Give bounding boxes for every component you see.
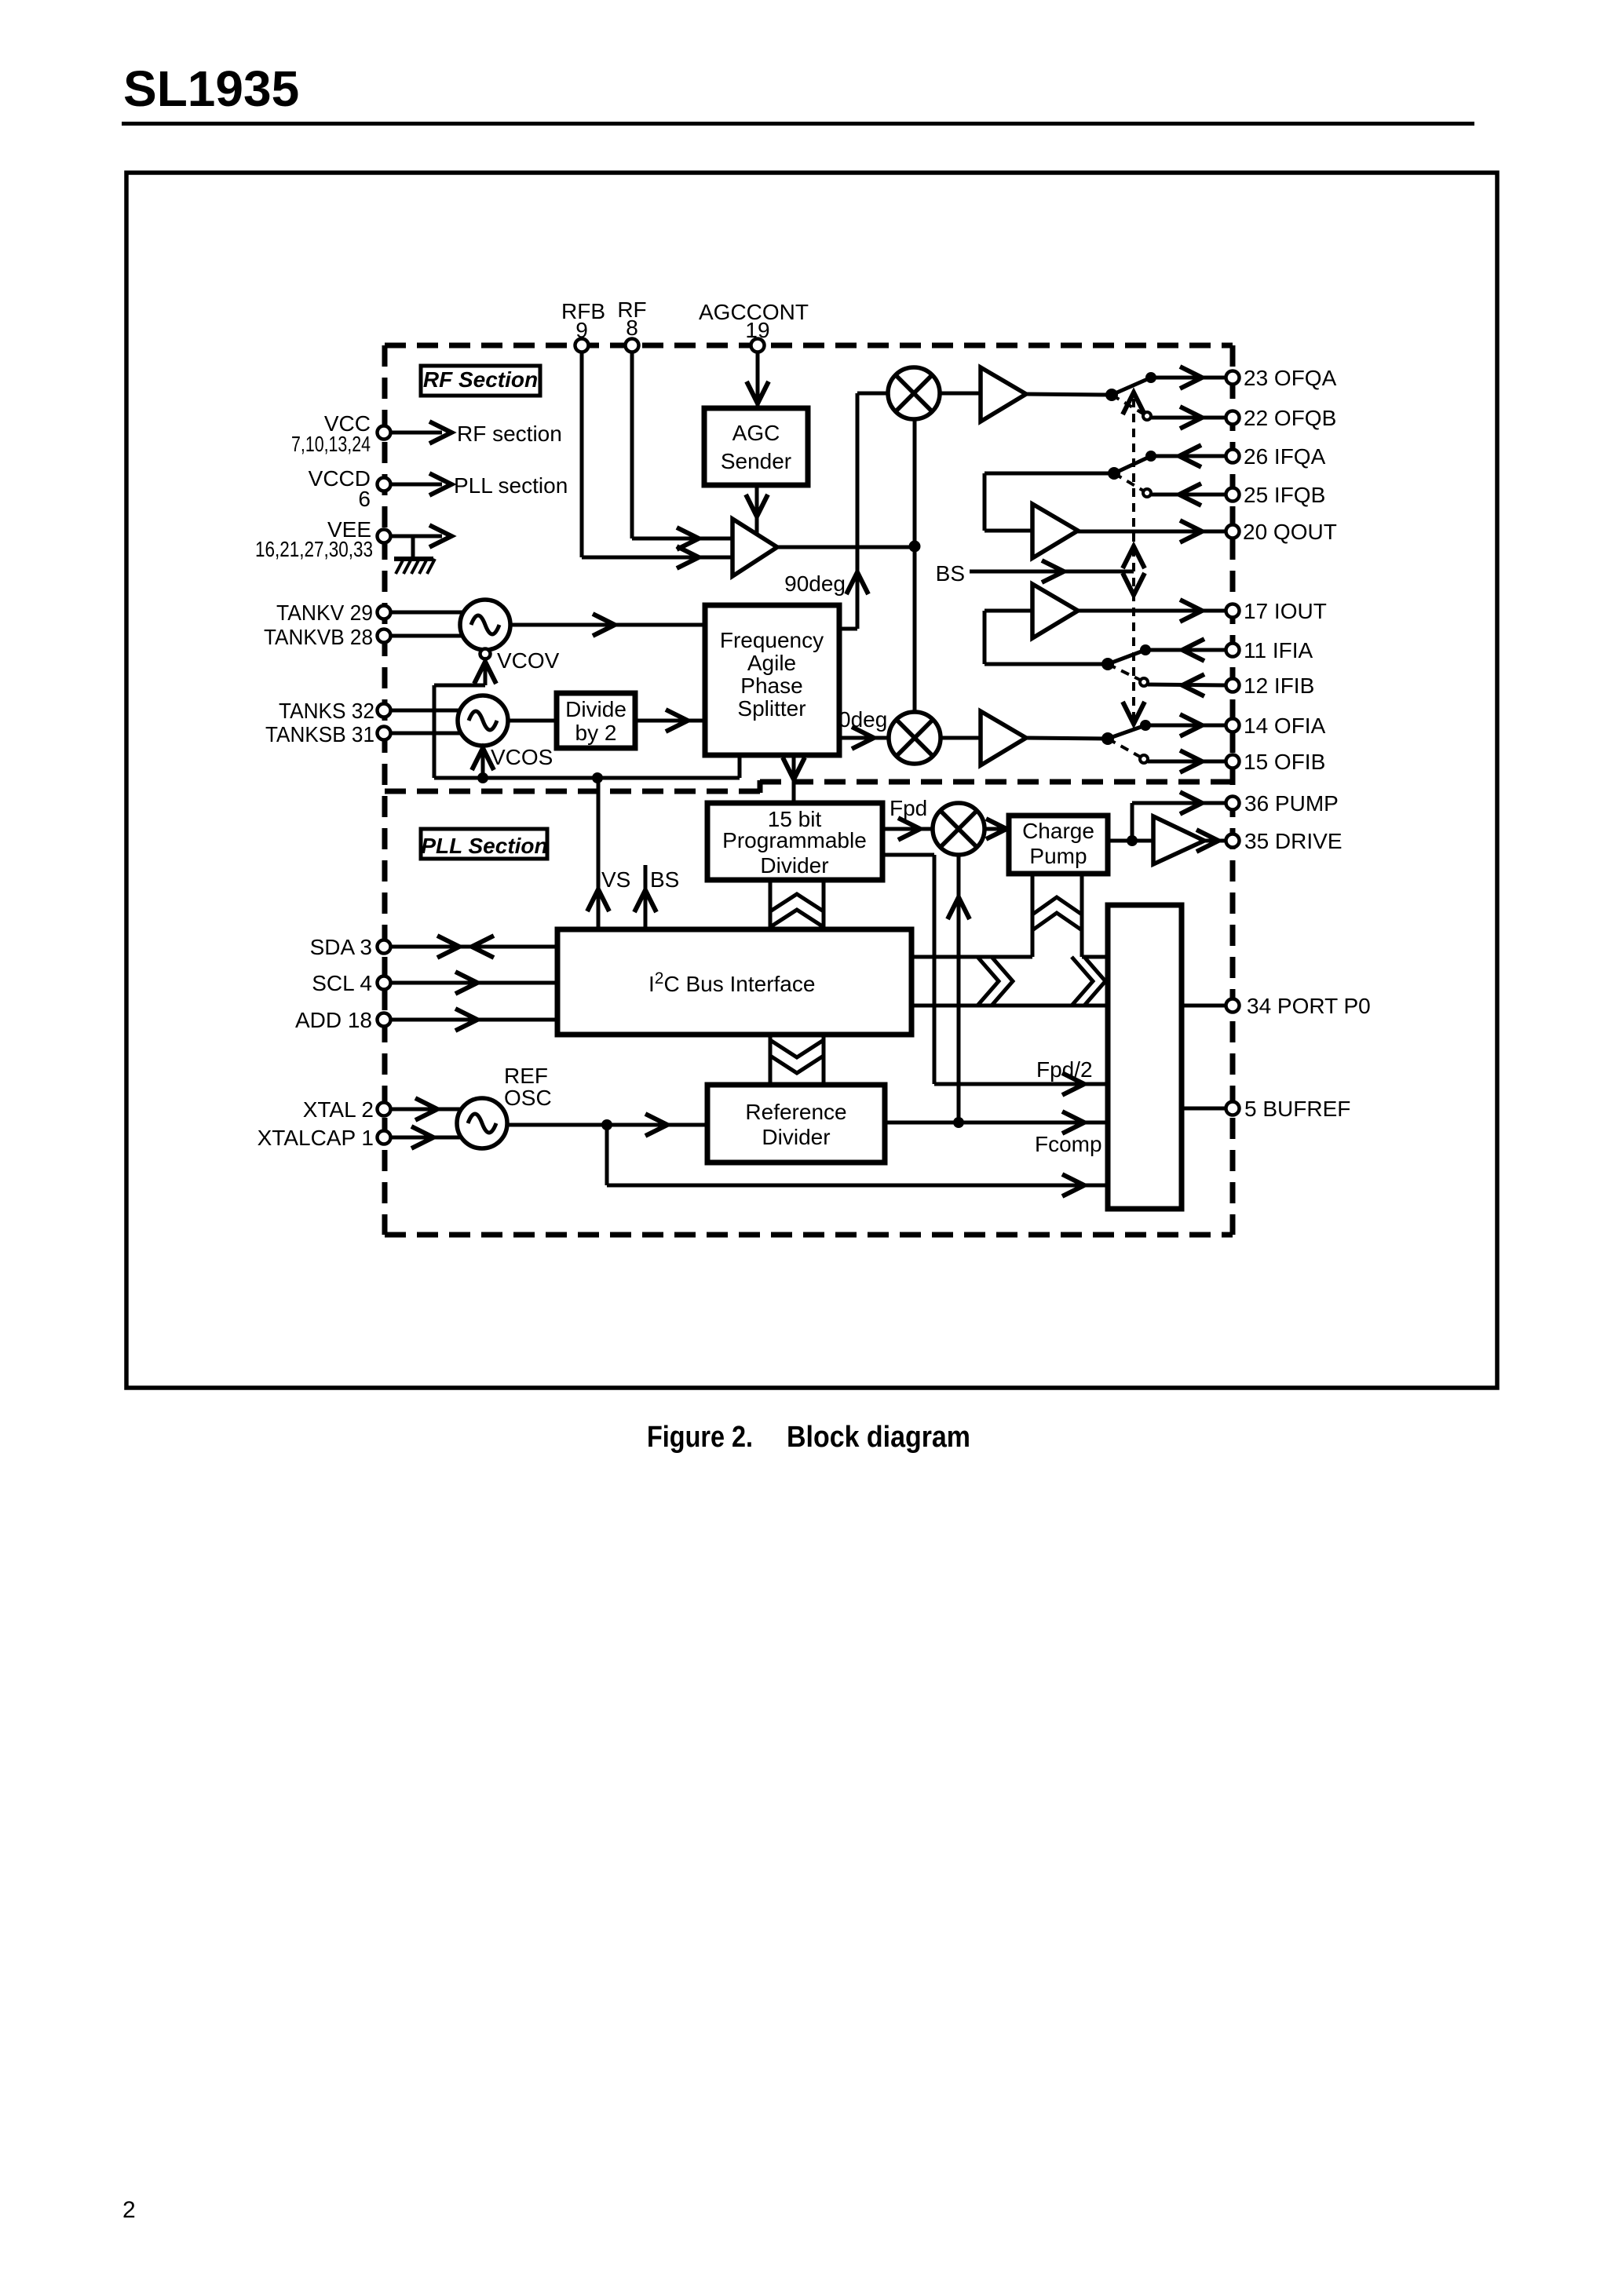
svg-text:0deg: 0deg: [838, 707, 887, 732]
svg-text:Frequency: Frequency: [720, 628, 824, 652]
node junction pump: [1127, 835, 1138, 846]
svg-text:Phase: Phase: [740, 673, 802, 698]
wire PORT P0: [1182, 1004, 1226, 1008]
pin 11 IFIA: [1226, 638, 1313, 663]
wire VCC arrow: [390, 422, 451, 444]
svg-text:Figure 2.: Figure 2.: [647, 1421, 753, 1454]
svg-text:ADD 18: ADD 18: [295, 1008, 372, 1032]
svg-text:12 IFIB: 12 IFIB: [1244, 673, 1314, 698]
svg-text:TANKVB 28: TANKVB 28: [264, 625, 373, 649]
svg-text:22 OFQB: 22 OFQB: [1244, 406, 1336, 430]
wire amp I to switch: [1026, 738, 1108, 739]
pin circle XTALCAP: [378, 1131, 391, 1144]
wire to pin 15 OFIB: [1148, 750, 1226, 772]
pin circle TANKVB: [378, 630, 391, 643]
svg-text:36 PUMP: 36 PUMP: [1244, 791, 1339, 816]
pin 35 DRIVE: [1226, 829, 1343, 853]
arrowhead RFB into amp: [677, 546, 699, 568]
svg-text:11 IFIA: 11 IFIA: [1244, 638, 1313, 663]
pin 22 OFQB: [1226, 406, 1337, 430]
wire QOUT output: [1078, 520, 1226, 542]
oscillator REF OSC: [457, 1098, 507, 1148]
pin 26 IFQA: [1226, 444, 1326, 469]
svg-text:VCOS: VCOS: [491, 745, 553, 769]
svg-text:14 OFIA: 14 OFIA: [1244, 714, 1326, 738]
bus I2C to register: [911, 957, 1108, 1006]
amp IOUT: [1032, 584, 1078, 638]
wire from pin 26 IFQA: [1151, 445, 1226, 467]
bus charge pump column: [1032, 874, 1082, 957]
switch OFI: [1101, 720, 1151, 763]
pin 14 OFIA: [1226, 714, 1326, 738]
pin 36 PUMP: [1226, 791, 1339, 816]
pin circle VEE: [378, 530, 391, 543]
block Frequency Agile Phase Splitter: [705, 605, 839, 755]
wire from pin 25 IFQB: [1151, 484, 1226, 506]
pin AGCCONT 19 wire: [756, 352, 760, 408]
svg-text:15 OFIB: 15 OFIB: [1244, 750, 1325, 774]
svg-text:XTALCAP 1: XTALCAP 1: [258, 1126, 374, 1150]
svg-text:Divide: Divide: [565, 697, 627, 721]
svg-text:SCL 4: SCL 4: [312, 971, 372, 995]
wire BS control: [970, 560, 1134, 582]
switch IFI: [1101, 644, 1151, 686]
pin 17 IOUT: [1226, 599, 1327, 623]
pin 12 IFIB: [1226, 673, 1315, 698]
PLL Section label: [421, 829, 548, 859]
wire TANKV: [390, 611, 471, 615]
svg-text:VS: VS: [601, 867, 630, 892]
pin circle VCCD: [378, 478, 391, 491]
wire switch control dashed: [1123, 392, 1145, 724]
wire SCL: [390, 972, 557, 994]
svg-text:OSC: OSC: [504, 1086, 552, 1110]
svg-text:5 BUFREF: 5 BUFREF: [1244, 1097, 1350, 1121]
svg-text:Pump: Pump: [1029, 844, 1087, 868]
pin VCCD label: [309, 466, 371, 511]
svg-text:BS: BS: [650, 867, 679, 892]
svg-text:8: 8: [626, 316, 638, 340]
block 15 bit Programmable Divider: [707, 803, 882, 880]
wire drive output: [1196, 830, 1226, 852]
node junction amp output: [909, 541, 921, 553]
pin circle TANKS: [378, 704, 391, 717]
switch OFQ: [1105, 372, 1156, 420]
block I2C Bus Interface: [557, 929, 911, 1035]
svg-text:TANKSB 31: TANKSB 31: [265, 722, 374, 746]
pin VEE label: [255, 517, 373, 561]
wire mixer Q to amp: [940, 392, 981, 396]
wire AGC Sender to RF amp: [755, 485, 759, 534]
node junction fcomp: [953, 1117, 964, 1128]
wire 90deg path: [839, 393, 888, 629]
wire VCCD arrow: [390, 473, 451, 495]
svg-text:SL1935: SL1935: [123, 60, 299, 117]
svg-text:REF: REF: [504, 1064, 548, 1088]
svg-text:Charge: Charge: [1022, 819, 1094, 843]
pin 23 OFQA: [1226, 366, 1337, 390]
amp I: [981, 711, 1026, 765]
wire BS stub: [634, 865, 656, 929]
amp DRIVE: [1153, 816, 1204, 864]
node REF OSC label: [504, 1064, 552, 1110]
svg-text:TANKV 29: TANKV 29: [276, 600, 373, 625]
section dashed right border: [1230, 345, 1236, 1235]
wire VS: [587, 778, 609, 929]
figure frame: [126, 173, 1497, 1388]
wire VCOV select arrow: [474, 662, 496, 685]
wire XTAL: [390, 1098, 465, 1120]
wire VCO select rail: [434, 685, 740, 778]
svg-text:Reference: Reference: [745, 1100, 846, 1124]
svg-text:25 IFQB: 25 IFQB: [1244, 483, 1325, 507]
wire VCOS select arrow: [472, 747, 494, 778]
section dashed left border: [382, 345, 388, 1235]
svg-text:Fcomp: Fcomp: [1035, 1132, 1102, 1156]
pin 5 BUFREF: [1226, 1097, 1351, 1121]
svg-text:RF section: RF section: [457, 422, 562, 446]
pin 20 QOUT: [1226, 520, 1337, 544]
wire phase detector to charge pump: [985, 819, 1009, 839]
wire 0deg path: [839, 727, 889, 749]
switch IFQ: [1108, 451, 1156, 497]
wire Divide by 2 to splitter: [635, 710, 705, 732]
svg-text:BS: BS: [936, 561, 965, 586]
wire from pin 12 IFIB: [1148, 674, 1226, 696]
pin RF 8 wire: [632, 352, 732, 538]
wire from pin 11 IFIA: [1145, 639, 1226, 661]
wire VEE arrow: [390, 525, 451, 557]
node junction refosc: [601, 1119, 612, 1130]
pin VCC label: [291, 411, 371, 456]
svg-text:PLL section: PLL section: [454, 473, 568, 498]
wire mixer I to amp: [941, 736, 981, 740]
pin circle RF: [626, 339, 639, 352]
pin RF 8 label: [617, 297, 646, 340]
svg-text:26 IFQA: 26 IFQA: [1244, 444, 1326, 469]
wire to pin 14 OFIA: [1145, 714, 1226, 736]
arrowhead AGCCONT into AGC Sender: [747, 381, 769, 403]
pin circle SCL: [378, 976, 391, 990]
wire reference to phase detector: [948, 855, 970, 1122]
pin 25 IFQB: [1226, 483, 1326, 507]
block Reference Divider: [707, 1085, 885, 1163]
wire ADD: [390, 1009, 557, 1031]
arrowhead RF into amp: [677, 527, 699, 549]
svg-text:Block diagram: Block diagram: [787, 1421, 970, 1454]
arrowhead AGC to amp: [746, 495, 768, 517]
AGC Sender block: [704, 408, 808, 485]
block register: [1108, 905, 1182, 1209]
title rule: [122, 122, 1474, 126]
wire VCOS to Divide by 2: [508, 719, 557, 723]
mixer Q: [888, 367, 940, 419]
wire amp Q to switch: [1026, 394, 1112, 395]
svg-text:Sender: Sender: [721, 449, 791, 473]
svg-text:35 DRIVE: 35 DRIVE: [1244, 829, 1343, 853]
svg-text:16,21,27,30,33: 16,21,27,30,33: [255, 537, 373, 561]
RF/PLL dashed divider: [385, 780, 1233, 793]
svg-text:AGC: AGC: [732, 421, 780, 445]
svg-text:Splitter: Splitter: [737, 696, 806, 721]
pin circle TANKV: [378, 606, 391, 619]
wire TANKS: [390, 709, 467, 713]
wire SDA: [390, 936, 557, 958]
block Divide by 2: [557, 693, 635, 748]
wire XTALCAP: [390, 1126, 465, 1148]
mixer phase detector: [933, 803, 985, 855]
wire refosc to register bottom: [607, 1125, 1108, 1196]
mixer I: [889, 712, 941, 764]
svg-text:TANKS 32: TANKS 32: [279, 699, 374, 723]
RF Section label: [421, 366, 540, 396]
wire divider second output: [882, 855, 1108, 1095]
svg-text:90deg: 90deg: [784, 571, 846, 596]
svg-text:I2C Bus Interface: I2C Bus Interface: [648, 969, 815, 996]
pin circle SDA: [378, 940, 391, 954]
svg-text:XTAL 2: XTAL 2: [303, 1097, 374, 1122]
oscillator VCOV: [460, 600, 510, 650]
wire IFQ feedback to QOUT amp: [985, 473, 1114, 531]
svg-text:17 IOUT: 17 IOUT: [1244, 599, 1327, 623]
svg-text:SDA 3: SDA 3: [310, 935, 372, 959]
section dashed bottom border: [385, 1232, 1233, 1238]
svg-text:Fpd/2: Fpd/2: [1036, 1057, 1093, 1082]
wire to pin 22 OFQB: [1151, 407, 1226, 429]
svg-text:Programmable: Programmable: [722, 828, 867, 852]
wire IFI feedback to IOUT amp: [985, 611, 1108, 664]
bus divider to I2C: [770, 880, 824, 929]
svg-text:23 OFQA: 23 OFQA: [1244, 366, 1337, 390]
pin RFB 9 label: [561, 299, 605, 342]
amp QOUT: [1032, 504, 1078, 558]
wire VCOV to splitter: [510, 614, 705, 636]
pin 15 OFIB: [1226, 750, 1326, 774]
pin AGCCONT 19 label: [699, 300, 809, 342]
svg-text:PLL Section: PLL Section: [421, 834, 547, 858]
svg-text:6: 6: [358, 487, 371, 511]
RF amp U1: [732, 519, 777, 576]
wire REF OSC output: [507, 1114, 707, 1136]
wire TANKSB: [390, 732, 467, 736]
svg-text:2: 2: [122, 2197, 136, 2223]
wire TANKVB: [390, 634, 471, 638]
svg-text:Divider: Divider: [762, 1125, 830, 1149]
amp Q: [981, 367, 1026, 422]
svg-text:RF Section: RF Section: [423, 367, 538, 392]
svg-text:7,10,13,24: 7,10,13,24: [291, 432, 371, 456]
node VCOV pin circle: [480, 649, 491, 659]
pin circle AGCCONT: [751, 339, 765, 352]
svg-text:34 PORT P0: 34 PORT P0: [1247, 994, 1371, 1018]
pin circle XTAL: [378, 1103, 391, 1116]
wire Fpd to phase detector: [882, 818, 933, 840]
oscillator VCOS: [458, 695, 508, 746]
svg-text:Fpd: Fpd: [890, 796, 927, 820]
node junction VCOS select: [477, 772, 488, 783]
wire charge pump output: [1108, 792, 1226, 841]
pin circle RFB: [575, 339, 589, 352]
ground: [394, 559, 435, 574]
pin circle ADD: [378, 1013, 391, 1027]
wire IOUT output: [1078, 600, 1226, 622]
wire Fcomp: [885, 1111, 1108, 1133]
pin circle VCC: [378, 426, 391, 440]
svg-text:by 2: by 2: [575, 721, 617, 745]
wire BUFREF: [1182, 1107, 1226, 1111]
svg-text:Agile: Agile: [747, 651, 796, 675]
bus I2C to reference divider: [770, 1035, 824, 1085]
svg-text:20 QOUT: 20 QOUT: [1243, 520, 1337, 544]
RF section dashed top border: [385, 343, 1233, 349]
svg-text:Divider: Divider: [760, 853, 828, 878]
svg-text:VCOV: VCOV: [497, 648, 560, 673]
block Charge Pump: [1009, 816, 1108, 874]
wire mixer column: [913, 419, 917, 712]
wire RF amp output: [777, 546, 915, 549]
wire to pin 23 OFQA: [1151, 367, 1226, 389]
pin circle TANKSB: [378, 727, 391, 740]
node junction VS rail: [592, 772, 603, 783]
wire splitter to programmable divider: [783, 755, 805, 803]
pin 34 PORT P0: [1226, 994, 1371, 1018]
pin RFB 9 wire: [582, 352, 732, 557]
